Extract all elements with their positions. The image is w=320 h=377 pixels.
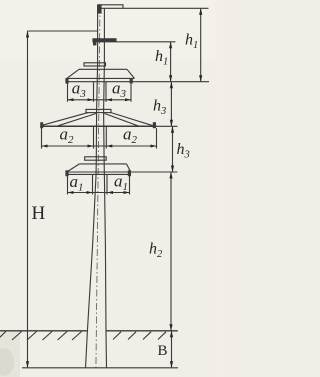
dimension H xyxy=(26,31,29,368)
dimension a2 xyxy=(42,126,157,148)
pole centerline xyxy=(96,6,100,370)
foundation bottom line xyxy=(22,367,178,369)
dimension h1 outer xyxy=(199,8,202,81)
upper attachment bracket xyxy=(93,39,116,46)
crossarm a2 (middle) xyxy=(40,109,156,128)
dimension h2 xyxy=(169,172,172,331)
extension line right of a2 xyxy=(157,125,178,127)
extension line pole top right xyxy=(98,7,209,9)
dimension a3 xyxy=(68,82,132,102)
extension line below a3 xyxy=(134,81,209,83)
extension line right of a1 xyxy=(131,171,178,173)
extension line H top xyxy=(28,30,98,32)
svg-text:H: H xyxy=(32,203,46,224)
ground hatching left xyxy=(0,332,82,341)
pole left edge xyxy=(86,5,98,369)
crossarm a1 (bottom) xyxy=(65,157,131,177)
dimension h3 lower xyxy=(171,126,174,172)
paper background xyxy=(0,0,226,377)
dimension a1 xyxy=(68,174,130,194)
ground hatching right xyxy=(113,332,166,340)
pole right edge xyxy=(104,8,107,368)
ground line xyxy=(0,330,178,332)
dimension h1 inner xyxy=(169,42,172,82)
extension line bracket right xyxy=(116,41,175,43)
bottom-left smudge xyxy=(0,348,14,376)
dimension h3 upper xyxy=(170,82,173,127)
top flag / pole tip bracket xyxy=(97,4,123,13)
crossarm a3 (top) xyxy=(65,63,134,84)
svg-text:В: В xyxy=(158,343,168,359)
dimension B (embedment) xyxy=(170,331,173,368)
